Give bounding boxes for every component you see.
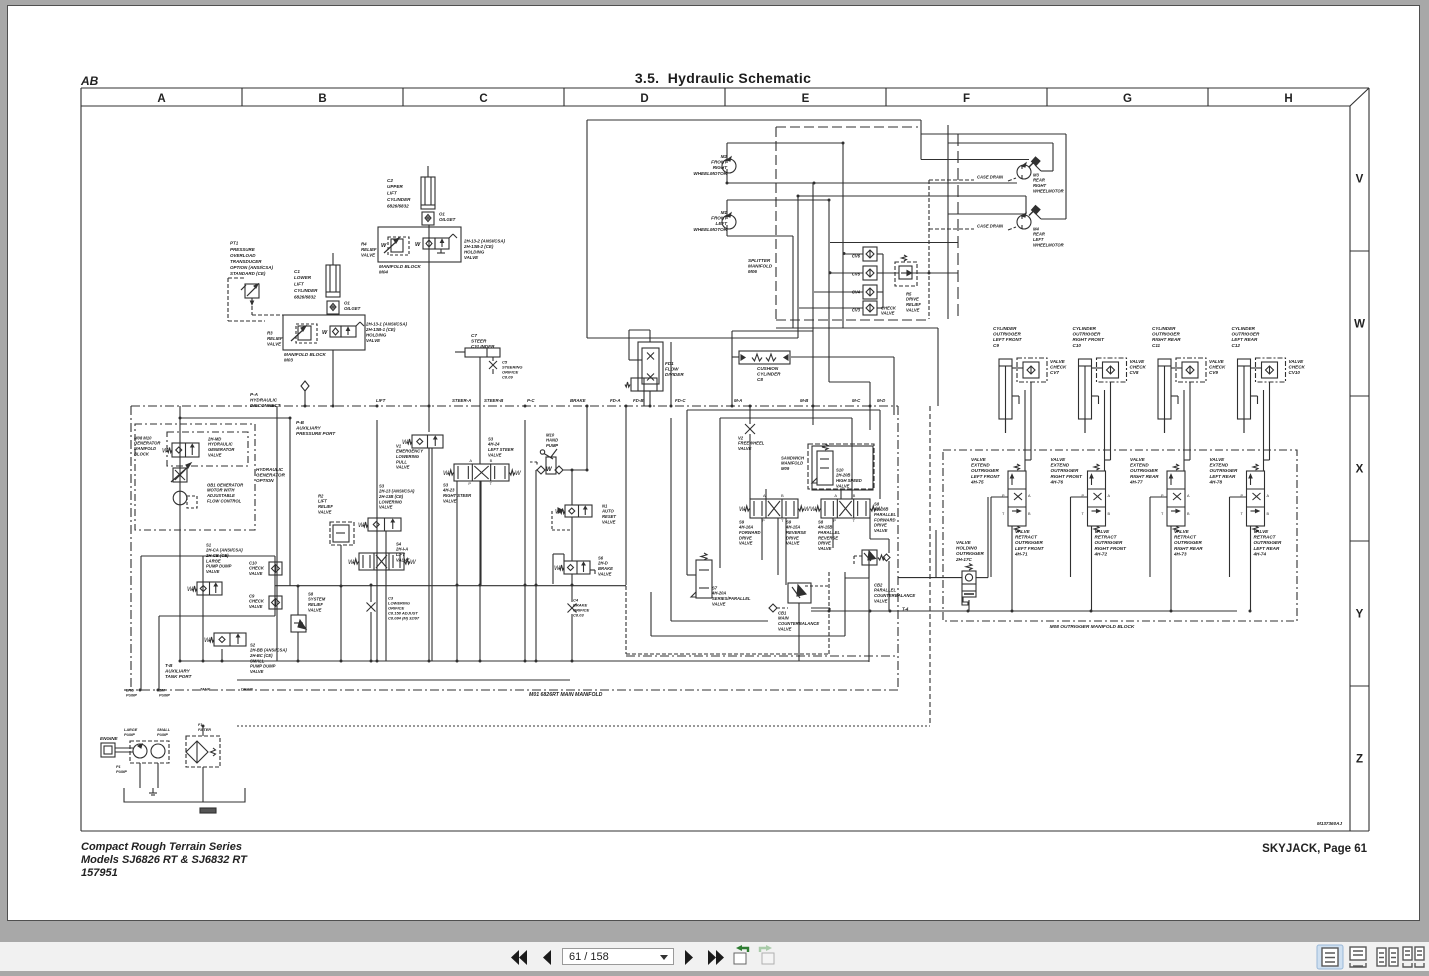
svg-text:PUMP: PUMP (116, 770, 127, 774)
svg-text:Compact Rough Terrain Series: Compact Rough Terrain Series (81, 841, 242, 853)
svg-text:W: W (515, 471, 522, 477)
svg-text:PUMP: PUMP (126, 694, 137, 698)
svg-text:OUTRIGGER: OUTRIGGER (1254, 540, 1283, 545)
svg-text:C11: C11 (1152, 343, 1161, 348)
svg-text:MANIFOLD: MANIFOLD (748, 263, 773, 268)
svg-text:P1: P1 (116, 765, 121, 769)
svg-text:2H-20B: 2H-20B (835, 473, 850, 478)
svg-text:S2: S2 (250, 642, 256, 647)
svg-text:D: D (640, 93, 648, 105)
svg-text:OUTRIGGER: OUTRIGGER (1210, 468, 1239, 473)
svg-text:OUTRIGGER: OUTRIGGER (1095, 540, 1124, 545)
svg-text:REAR: REAR (1033, 178, 1045, 183)
svg-text:AB: AB (80, 74, 99, 88)
svg-text:S8: S8 (818, 519, 824, 524)
svg-text:B: B (1028, 512, 1031, 516)
svg-text:4H-15B: 4H-15B (817, 525, 832, 530)
svg-text:LOWER: LOWER (294, 275, 312, 280)
svg-text:RETRACT: RETRACT (1015, 534, 1038, 539)
svg-text:M3: M3 (1033, 172, 1039, 177)
svg-text:P-A: P-A (250, 392, 258, 397)
svg-text:RESET: RESET (602, 514, 616, 519)
svg-text:P-C: P-C (527, 398, 535, 403)
svg-text:H: H (1284, 93, 1292, 105)
svg-text:CHECK: CHECK (881, 305, 897, 310)
svg-text:UPPER: UPPER (387, 184, 404, 189)
svg-text:PUMP: PUMP (546, 443, 558, 448)
svg-text:E: E (802, 93, 810, 105)
svg-text:T: T (1161, 512, 1164, 516)
svg-text:VALVE: VALVE (598, 571, 612, 576)
svg-text:VALVE: VALVE (249, 571, 263, 576)
svg-text:DIVIDER: DIVIDER (665, 372, 684, 377)
svg-text:VALVE: VALVE (366, 338, 381, 343)
svg-text:HYDRAULIC: HYDRAULIC (250, 397, 278, 402)
svg-text:6826/6832: 6826/6832 (294, 294, 316, 299)
svg-text:157951: 157951 (81, 867, 118, 879)
svg-text:4H-78: 4H-78 (1209, 480, 1223, 485)
svg-text:OVERLOAD: OVERLOAD (230, 253, 256, 258)
svg-text:AUXILIARY: AUXILIARY (295, 425, 322, 430)
svg-text:FLOW CONTROL: FLOW CONTROL (207, 498, 242, 503)
svg-text:2H-BB (ANSI/CSA): 2H-BB (ANSI/CSA) (249, 648, 287, 653)
svg-text:GENERATOR: GENERATOR (208, 447, 234, 452)
svg-text:CV3: CV3 (852, 307, 861, 312)
svg-text:Y: Y (1356, 609, 1364, 621)
svg-text:VALVE: VALVE (267, 342, 282, 347)
svg-text:OUTRIGGER: OUTRIGGER (993, 331, 1022, 336)
svg-text:M-C: M-C (852, 398, 861, 403)
svg-text:B: B (781, 493, 784, 498)
svg-text:4H-76: 4H-76 (1050, 480, 1064, 485)
svg-text:S7: S7 (712, 585, 718, 590)
svg-text:RIGHT FRONT: RIGHT FRONT (1073, 337, 1106, 342)
svg-text:RETRACT: RETRACT (1095, 534, 1118, 539)
svg-text:RIGHT STEER: RIGHT STEER (443, 493, 471, 498)
svg-text:PUMP DUMP: PUMP DUMP (250, 664, 276, 669)
svg-text:T-4: T-4 (902, 607, 909, 612)
svg-text:VALVE: VALVE (874, 598, 888, 603)
svg-text:FORWARD: FORWARD (739, 530, 761, 535)
svg-text:TANK: TANK (200, 688, 211, 692)
svg-text:SANDWICH: SANDWICH (781, 455, 805, 460)
svg-text:MANIFOLD BLOCK: MANIFOLD BLOCK (379, 264, 422, 269)
svg-text:S10: S10 (836, 467, 844, 472)
svg-text:MAIN: MAIN (778, 616, 790, 621)
svg-text:C9: C9 (249, 593, 255, 598)
svg-text:V2: V2 (738, 435, 744, 440)
svg-text:RIGHT REAR: RIGHT REAR (1130, 474, 1159, 479)
svg-text:VALVE: VALVE (361, 253, 376, 258)
svg-text:MOTOR WITH: MOTOR WITH (207, 488, 235, 493)
svg-text:LARGE: LARGE (206, 558, 221, 563)
svg-text:B: B (1108, 512, 1111, 516)
svg-text:6826/6832: 6826/6832 (387, 203, 409, 208)
svg-text:HYDRAULIC: HYDRAULIC (208, 442, 234, 447)
svg-text:M01 6826RT MAIN MANIFOLD: M01 6826RT MAIN MANIFOLD (529, 692, 603, 698)
svg-text:PARALLEL: PARALLEL (874, 588, 896, 593)
svg-text:LEFT FRONT: LEFT FRONT (971, 474, 1001, 479)
svg-text:2H-13B (CE): 2H-13B (CE) (378, 494, 404, 499)
svg-text:REVERSE: REVERSE (818, 535, 838, 540)
svg-text:C8: C8 (757, 377, 763, 382)
svg-text:DRAIN: DRAIN (241, 688, 253, 692)
svg-text:HOLDING: HOLDING (956, 545, 978, 550)
svg-text:VALVE: VALVE (250, 669, 264, 674)
svg-text:LIFT: LIFT (396, 552, 405, 557)
svg-text:CUSHION: CUSHION (757, 366, 779, 371)
svg-text:4H-16B: 4H-16B (873, 507, 888, 512)
svg-text:OUTRIGGER: OUTRIGGER (1174, 540, 1203, 545)
svg-text:GB1 GENERATOR: GB1 GENERATOR (207, 482, 243, 487)
svg-text:VALVE: VALVE (712, 601, 726, 606)
svg-text:V1: V1 (396, 443, 402, 448)
svg-text:4H-73: 4H-73 (1173, 552, 1187, 557)
svg-text:2H-13B-2 (CE): 2H-13B-2 (CE) (463, 244, 494, 249)
svg-text:DRIVE: DRIVE (906, 297, 919, 302)
svg-text:C8.084 (M) 32/97: C8.084 (M) 32/97 (388, 616, 420, 621)
svg-text:T: T (1241, 512, 1244, 516)
svg-text:VALVE: VALVE (318, 509, 332, 514)
svg-text:O1: O1 (439, 212, 445, 217)
svg-text:WHEELMOTOR: WHEELMOTOR (693, 227, 727, 232)
svg-text:LARGE: LARGE (124, 728, 138, 732)
svg-text:FORWARD: FORWARD (874, 517, 896, 522)
svg-text:M137360AJ: M137360AJ (1317, 821, 1342, 826)
svg-text:MANIFOLD BLOCK: MANIFOLD BLOCK (284, 352, 327, 357)
svg-text:2H-D: 2H-D (597, 561, 608, 566)
svg-text:SKYJACK, Page 61: SKYJACK, Page 61 (1262, 843, 1367, 855)
svg-text:VALVE: VALVE (906, 307, 920, 312)
svg-text:AUXILIARY: AUXILIARY (164, 668, 191, 673)
svg-text:PUMP: PUMP (157, 733, 168, 737)
svg-text:CHECK: CHECK (1289, 364, 1306, 369)
svg-text:CHECK: CHECK (249, 599, 265, 604)
svg-text:S9: S9 (786, 519, 792, 524)
svg-text:CV10: CV10 (1289, 370, 1301, 375)
svg-text:LEFT: LEFT (716, 221, 729, 226)
svg-text:C10: C10 (249, 560, 257, 565)
svg-text:VALVE: VALVE (1130, 457, 1146, 462)
svg-text:CHECK: CHECK (1130, 364, 1147, 369)
svg-text:VALVE: VALVE (874, 528, 888, 533)
svg-text:LEFT REAR: LEFT REAR (1254, 546, 1280, 551)
svg-text:B: B (318, 93, 326, 105)
svg-text:M-B: M-B (800, 398, 809, 403)
svg-text:ENGINE: ENGINE (100, 736, 119, 741)
svg-text:OUTRIGGER: OUTRIGGER (971, 468, 1000, 473)
svg-text:4H-20A: 4H-20A (711, 591, 726, 596)
svg-text:REVERSE: REVERSE (786, 530, 806, 535)
svg-text:R2: R2 (318, 493, 324, 498)
svg-text:LIFT: LIFT (387, 191, 398, 196)
svg-text:CV4: CV4 (852, 289, 861, 294)
svg-text:OILGET: OILGET (439, 217, 456, 222)
svg-text:W: W (1354, 319, 1365, 331)
svg-text:BRAKE: BRAKE (598, 566, 613, 571)
svg-text:RELIEF: RELIEF (906, 302, 921, 307)
svg-text:CYLINDER: CYLINDER (294, 288, 318, 293)
svg-text:VALVE: VALVE (396, 465, 410, 470)
svg-text:PRESSURE PORT: PRESSURE PORT (296, 431, 336, 436)
svg-text:VALVE: VALVE (738, 446, 752, 451)
svg-text:RIGHT REAR: RIGHT REAR (1174, 546, 1203, 551)
svg-text:OUTRIGGER: OUTRIGGER (1130, 468, 1159, 473)
svg-text:M08 OUTRIGGER MANIFOLD BLOCK: M08 OUTRIGGER MANIFOLD BLOCK (1050, 624, 1135, 630)
svg-text:R5: R5 (906, 291, 912, 296)
svg-text:FD1: FD1 (665, 361, 674, 366)
svg-text:3.5. Hydraulic Schematic: 3.5. Hydraulic Schematic (635, 70, 811, 86)
svg-text:VALVE: VALVE (249, 604, 263, 609)
svg-text:4H-71: 4H-71 (1014, 552, 1028, 557)
svg-text:M10: M10 (546, 432, 555, 437)
svg-text:SYSTEM: SYSTEM (308, 597, 326, 602)
svg-text:B: B (853, 493, 856, 498)
svg-text:VALVE: VALVE (1051, 457, 1067, 462)
svg-text:2H-CA (ANSI/CSA): 2H-CA (ANSI/CSA) (205, 548, 243, 553)
svg-text:B: B (1187, 512, 1190, 516)
svg-text:EXTEND: EXTEND (971, 462, 990, 467)
svg-text:COUNTERBALANCE: COUNTERBALANCE (778, 621, 819, 626)
svg-text:PT1: PT1 (230, 241, 239, 246)
svg-text:VALVE: VALVE (208, 452, 222, 457)
svg-text:FD-B: FD-B (633, 398, 644, 403)
svg-text:REAR: REAR (1033, 232, 1045, 237)
svg-text:M06: M06 (748, 269, 757, 274)
svg-text:2H-I-A: 2H-I-A (395, 547, 408, 552)
svg-text:OUTRIGGER: OUTRIGGER (1051, 468, 1080, 473)
svg-text:RIGHT FRONT: RIGHT FRONT (1051, 474, 1084, 479)
svg-text:C12: C12 (1232, 343, 1241, 348)
svg-text:ADJUSTABLE: ADJUSTABLE (206, 493, 235, 498)
svg-text:STEER-A: STEER-A (452, 398, 471, 403)
svg-text:M4: M4 (1033, 226, 1039, 231)
svg-text:VALVE: VALVE (881, 311, 895, 316)
svg-text:SMALL: SMALL (157, 728, 171, 732)
svg-text:LEFT FRONT: LEFT FRONT (993, 337, 1023, 342)
svg-text:Models SJ6826 RT & SJ6832 RT: Models SJ6826 RT & SJ6832 RT (81, 854, 248, 866)
svg-text:DRIVE: DRIVE (786, 535, 799, 540)
svg-text:VALVE: VALVE (1015, 529, 1031, 534)
svg-text:RELIEF: RELIEF (361, 247, 377, 252)
svg-text:CYLINDER: CYLINDER (757, 371, 781, 376)
svg-text:CB1: CB1 (778, 610, 787, 615)
svg-text:CYLINDER: CYLINDER (1073, 326, 1097, 331)
svg-text:CASE DRAIN: CASE DRAIN (977, 223, 1004, 228)
svg-text:W: W (410, 560, 417, 566)
svg-text:C8.03: C8.03 (573, 613, 584, 618)
svg-text:EXTEND: EXTEND (1210, 462, 1229, 467)
svg-text:M04: M04 (379, 269, 388, 274)
svg-text:N1: N1 (602, 503, 608, 508)
svg-text:OILGET: OILGET (344, 306, 361, 311)
svg-text:DRIVE: DRIVE (818, 541, 831, 546)
svg-text:T-B: T-B (165, 663, 173, 668)
svg-text:W: W (322, 330, 328, 336)
svg-text:CYLINDER: CYLINDER (1152, 326, 1176, 331)
svg-text:SERIES/PARALLEL: SERIES/PARALLEL (712, 596, 751, 601)
svg-text:G: G (1123, 93, 1132, 105)
svg-text:HIGH SPEED: HIGH SPEED (836, 478, 862, 483)
svg-text:S3: S3 (379, 483, 385, 488)
svg-text:A: A (1187, 494, 1190, 498)
svg-text:BRAKE: BRAKE (570, 398, 587, 403)
svg-text:4H-24: 4H-24 (487, 442, 500, 447)
svg-text:FREEWHEEL: FREEWHEEL (738, 441, 765, 446)
svg-text:4H-77: 4H-77 (1129, 480, 1143, 485)
svg-text:CHECK: CHECK (1050, 364, 1067, 369)
svg-text:VALVE: VALVE (1289, 359, 1305, 364)
svg-text:GENERATOR: GENERATOR (256, 472, 286, 477)
svg-text:C1: C1 (294, 269, 300, 274)
svg-text:LIFT: LIFT (294, 282, 305, 287)
svg-text:LIFT: LIFT (318, 499, 327, 504)
svg-text:RETRACT: RETRACT (1174, 534, 1197, 539)
svg-text:VALVE: VALVE (739, 541, 753, 546)
svg-text:2H-13-1 (ANSI/CSA): 2H-13-1 (ANSI/CSA) (365, 322, 408, 327)
svg-text:EMERGENCY: EMERGENCY (396, 449, 424, 454)
svg-text:C8.09: C8.09 (502, 375, 513, 380)
svg-text:WHEELMOTOR: WHEELMOTOR (693, 171, 727, 176)
svg-text:TANK PORT: TANK PORT (165, 674, 193, 679)
svg-text:LIFT: LIFT (376, 398, 386, 403)
svg-text:LEFT REAR: LEFT REAR (1232, 337, 1258, 342)
svg-text:CV7: CV7 (1050, 370, 1059, 375)
svg-text:RIGHT FRONT: RIGHT FRONT (1095, 546, 1128, 551)
svg-text:2H-MD: 2H-MD (207, 436, 221, 441)
svg-text:HOLDING: HOLDING (366, 333, 387, 338)
svg-text:A: A (1028, 494, 1031, 498)
svg-text:FRONT: FRONT (711, 159, 728, 164)
svg-text:B: B (490, 458, 493, 463)
svg-text:CHECK: CHECK (249, 566, 265, 571)
svg-text:2H-17C: 2H-17C (955, 557, 973, 562)
svg-text:M1: M1 (721, 210, 728, 215)
svg-text:HOLDING: HOLDING (464, 250, 485, 255)
svg-text:LEFT REAR: LEFT REAR (1210, 474, 1236, 479)
svg-text:OPTION (ANSI/CSA): OPTION (ANSI/CSA) (230, 265, 274, 270)
svg-text:VALVE: VALVE (488, 452, 502, 457)
svg-text:OPTION: OPTION (256, 478, 274, 483)
svg-text:HAND: HAND (546, 438, 558, 443)
svg-text:2H-CB (CE): 2H-CB (CE) (205, 553, 229, 558)
svg-text:4H-72: 4H-72 (1094, 552, 1108, 557)
svg-text:VALVE: VALVE (602, 519, 616, 524)
svg-text:R4: R4 (361, 242, 367, 247)
svg-text:C2: C2 (387, 178, 393, 183)
svg-text:M-A: M-A (734, 398, 742, 403)
svg-text:SM: SM (159, 689, 166, 693)
svg-text:A: A (834, 493, 837, 498)
svg-text:4H-16A: 4H-16A (738, 525, 753, 530)
svg-text:CB2: CB2 (874, 582, 883, 587)
svg-text:PARALLEL: PARALLEL (874, 512, 896, 517)
svg-text:OUTRIGGER: OUTRIGGER (956, 551, 985, 556)
svg-text:VALVE: VALVE (818, 546, 832, 551)
svg-text:DRIVE: DRIVE (874, 523, 887, 528)
svg-text:M03: M03 (284, 357, 293, 362)
svg-text:CYLINDER: CYLINDER (471, 344, 495, 349)
svg-text:VALVE: VALVE (1209, 359, 1225, 364)
svg-text:VALVE: VALVE (1050, 359, 1066, 364)
svg-text:W: W (546, 467, 553, 473)
svg-text:2H-BC (CE): 2H-BC (CE) (249, 653, 273, 658)
svg-text:PUMP: PUMP (159, 694, 170, 698)
svg-text:2H-13B-1 (CE): 2H-13B-1 (CE) (365, 327, 396, 332)
svg-text:COUNTERBALANCE: COUNTERBALANCE (874, 593, 915, 598)
svg-text:M09: M09 (781, 466, 790, 471)
svg-text:CASE DRAIN: CASE DRAIN (977, 174, 1004, 179)
svg-text:LEFT STEER: LEFT STEER (488, 447, 514, 452)
svg-text:RIGHT: RIGHT (1033, 183, 1046, 188)
svg-text:O1: O1 (344, 301, 350, 306)
svg-text:R3: R3 (267, 331, 273, 336)
svg-text:VALVE: VALVE (1095, 529, 1111, 534)
svg-text:T: T (1002, 512, 1005, 516)
svg-text:RIGHT REAR: RIGHT REAR (1152, 337, 1181, 342)
svg-text:LEFT: LEFT (1033, 237, 1044, 242)
svg-text:CV5: CV5 (852, 271, 861, 276)
svg-text:M08 M10: M08 M10 (134, 435, 152, 440)
svg-text:PUMP DUMP: PUMP DUMP (206, 564, 232, 569)
svg-text:S3: S3 (488, 436, 494, 441)
svg-text:WHEELMOTOR: WHEELMOTOR (1033, 242, 1064, 247)
svg-text:2H-13 (ANSI/CSA): 2H-13 (ANSI/CSA) (378, 489, 415, 494)
svg-text:LOWERING: LOWERING (379, 499, 403, 504)
svg-text:S9: S9 (739, 519, 745, 524)
svg-text:EXTEND: EXTEND (1130, 462, 1149, 467)
svg-text:VALVE: VALVE (956, 540, 972, 545)
svg-text:RETRACT: RETRACT (1254, 534, 1277, 539)
svg-text:PULL: PULL (396, 459, 407, 464)
svg-text:A: A (1267, 494, 1270, 498)
svg-text:W: W (415, 242, 421, 248)
svg-text:WHEELMOTOR: WHEELMOTOR (1033, 188, 1064, 193)
svg-text:AUTO: AUTO (601, 509, 615, 514)
svg-text:S6: S6 (598, 555, 604, 560)
svg-text:MANIFOLD: MANIFOLD (134, 446, 156, 451)
svg-text:GENERATOR: GENERATOR (134, 441, 160, 446)
svg-text:VALVE: VALVE (443, 498, 457, 503)
svg-text:VALVE: VALVE (379, 505, 393, 510)
svg-text:Z: Z (1356, 754, 1363, 766)
svg-text:OUTRIGGER: OUTRIGGER (1232, 331, 1261, 336)
svg-text:PRESSURE: PRESSURE (230, 247, 256, 252)
svg-text:C9: C9 (993, 343, 999, 348)
svg-text:VALVE: VALVE (1210, 457, 1226, 462)
svg-text:P: P (468, 481, 471, 486)
svg-text:4H-15A: 4H-15A (785, 525, 800, 530)
svg-text:A: A (1108, 494, 1111, 498)
svg-text:RIGHT: RIGHT (713, 165, 728, 170)
svg-text:EXTEND: EXTEND (1051, 462, 1070, 467)
svg-text:C7: C7 (471, 333, 477, 338)
svg-text:M-D: M-D (877, 398, 886, 403)
svg-text:CV8: CV8 (1130, 370, 1139, 375)
svg-text:OUTRIGGER: OUTRIGGER (1015, 540, 1044, 545)
svg-text:RELIEF: RELIEF (308, 602, 323, 607)
svg-text:CV9: CV9 (1209, 370, 1218, 375)
svg-text:VALVE: VALVE (464, 255, 479, 260)
svg-text:V: V (1356, 174, 1364, 186)
svg-text:S8: S8 (874, 501, 880, 506)
svg-text:2H-13-2 (ANSI/CSA): 2H-13-2 (ANSI/CSA) (463, 239, 506, 244)
svg-text:PUMP: PUMP (124, 733, 135, 737)
svg-text:FD-C: FD-C (675, 398, 686, 403)
svg-text:MANIFOLD: MANIFOLD (781, 461, 803, 466)
svg-text:RELIEF: RELIEF (267, 336, 283, 341)
svg-text:P: P (833, 518, 836, 523)
